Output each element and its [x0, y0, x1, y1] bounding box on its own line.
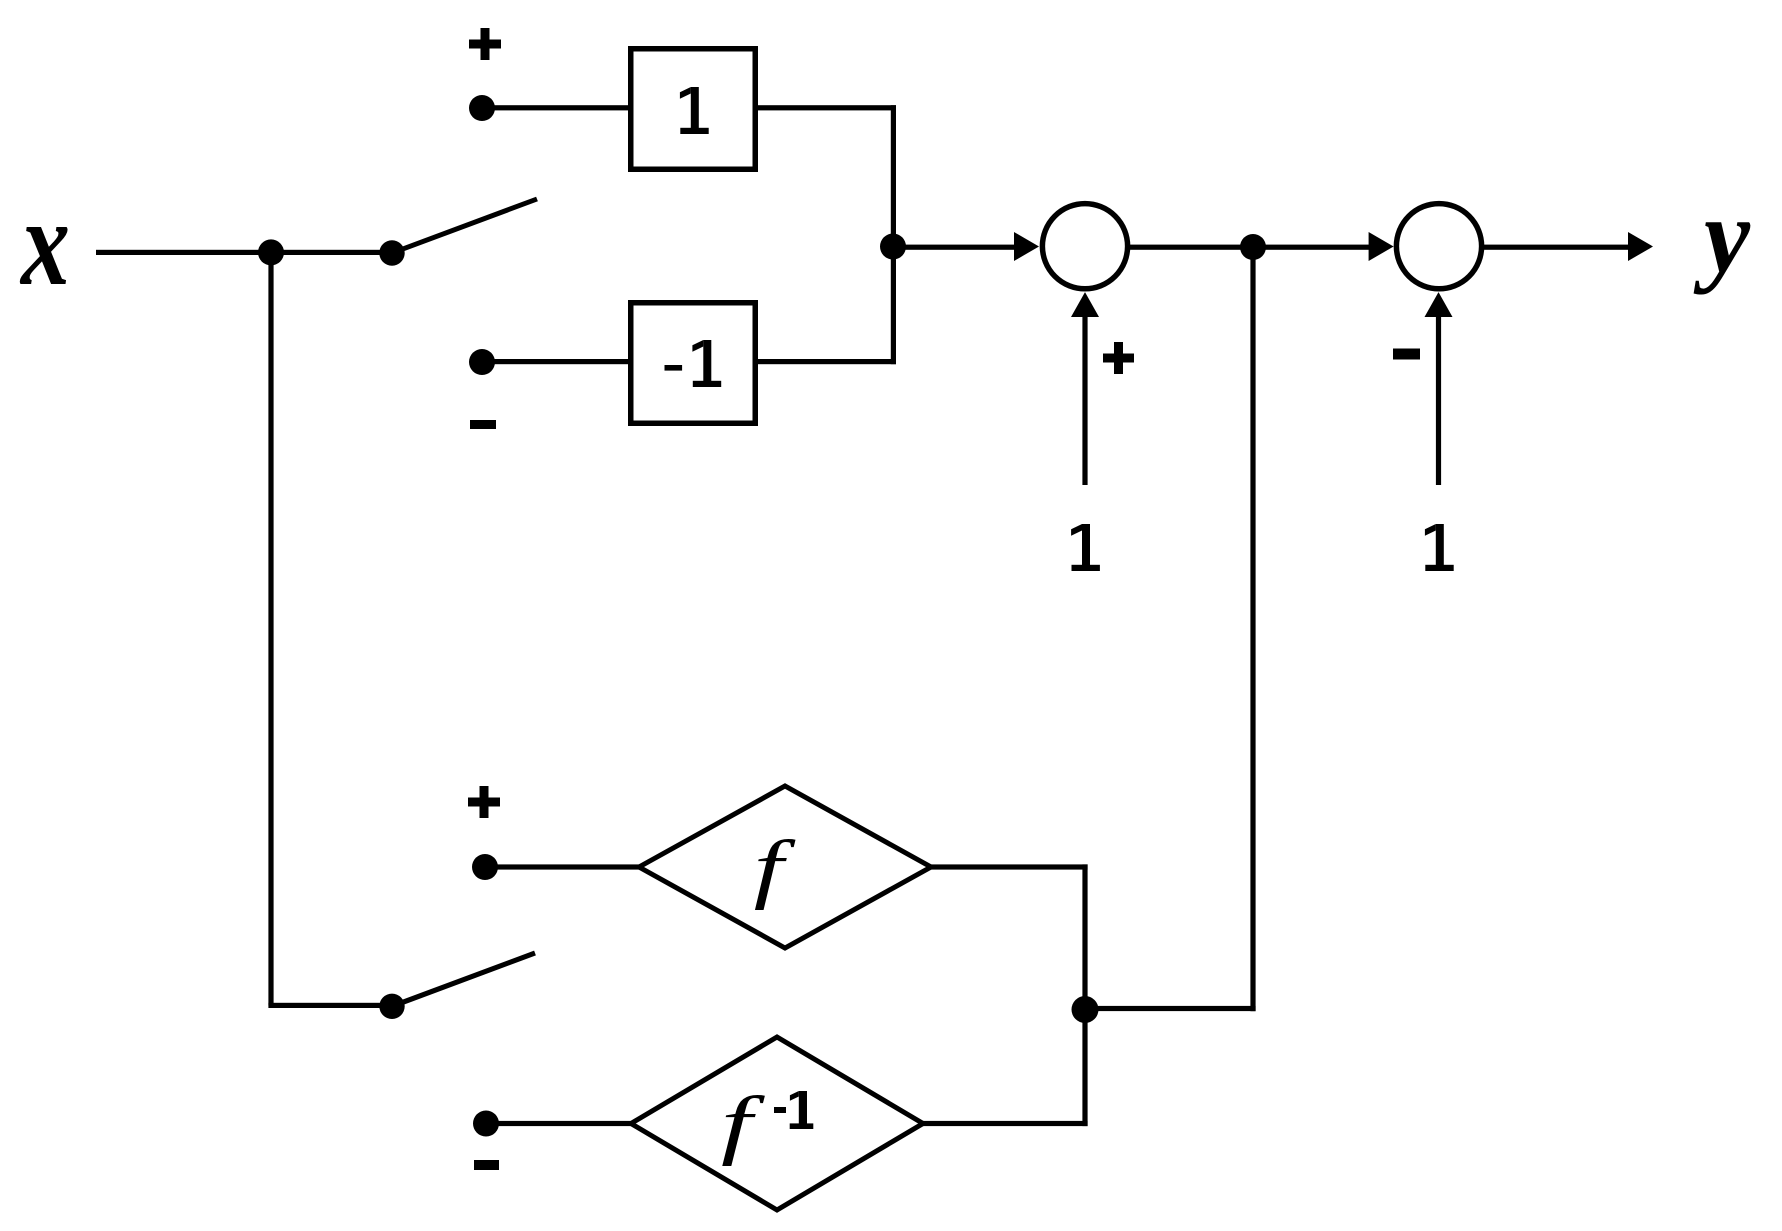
summing junction S1	[1042, 204, 1127, 289]
polarity label + (bias into S1)	[1103, 342, 1134, 374]
bias arrow into summer S2	[1436, 312, 1441, 485]
node A (input tee junction)	[258, 239, 284, 265]
wire x to node A	[96, 250, 271, 255]
bias arrow into summer S1	[1082, 312, 1087, 485]
wire f block to node G (right angle down)	[931, 864, 1088, 869]
polarity label + (upper gain path)	[469, 28, 501, 60]
wire node E to summer S2 with arrowhead	[1253, 245, 1369, 250]
constant label 1 (bias into S1)	[1071, 524, 1100, 571]
node B (+ input terminal, gain path)	[469, 95, 495, 121]
switch SW2 lever	[391, 951, 536, 1009]
function block f (diamond)	[639, 786, 931, 948]
wire node C to summer S1 with arrowhead	[893, 245, 1014, 250]
wire f inverse block to node G (right angle up)	[923, 1121, 1088, 1126]
polarity label - (lower gain path)	[470, 420, 496, 429]
node D (- input terminal, gain path)	[469, 349, 495, 375]
polarity label - (bias into S2)	[1393, 349, 1420, 360]
wire node D to gain block G2	[482, 359, 628, 364]
function label f^-1	[721, 1081, 813, 1166]
node G (function paths join)	[1072, 996, 1099, 1023]
switch SW1 lever	[391, 197, 538, 256]
svg-text:x: x	[19, 174, 70, 312]
node E (between summers)	[1240, 234, 1266, 260]
value label -1 (inside G2)	[665, 340, 722, 387]
switch SW2 pivot dot	[379, 994, 404, 1019]
wire summer S1 to node E	[1127, 245, 1253, 250]
wire node B to gain block G1	[482, 105, 628, 110]
wire node F to function block f	[485, 864, 642, 869]
constant label 1 (bias into S2)	[1425, 524, 1454, 571]
wire node H to function block f inverse	[486, 1121, 634, 1126]
output arrow to y	[1481, 245, 1629, 250]
wire node A to switch SW1 pivot	[271, 250, 392, 255]
value label 1 (inside G1)	[680, 87, 709, 134]
wire node A down to lower switch row	[268, 252, 273, 1006]
gain block G2	[631, 303, 756, 424]
polarity label - (function path f inverse)	[474, 1160, 499, 1170]
function block f inverse (diamond)	[631, 1037, 923, 1210]
gain block G1	[631, 49, 756, 170]
node H (- terminal, function path)	[473, 1111, 499, 1137]
wire G1 to node C (right angle down)	[758, 105, 896, 110]
node C (gain paths join)	[880, 234, 906, 260]
polarity label + (function path f)	[468, 786, 500, 818]
wire to switch SW2 pivot	[268, 1003, 394, 1008]
node F (+ terminal, function path)	[472, 854, 498, 880]
switch SW1 pivot dot	[379, 240, 404, 265]
wire G2 to node C (right angle up)	[758, 359, 896, 364]
wire node G right and up to node E	[1085, 1006, 1256, 1011]
summing junction S2	[1396, 204, 1481, 289]
